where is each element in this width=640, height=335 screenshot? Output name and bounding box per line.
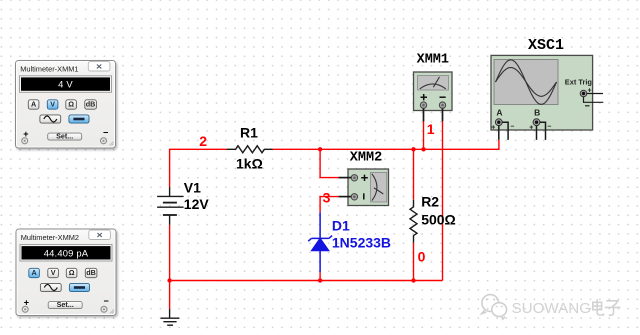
svg-text:R1: R1 <box>240 124 258 140</box>
svg-text:+: + <box>529 125 533 132</box>
svg-text:−: − <box>104 296 109 306</box>
svg-text:Ω: Ω <box>69 268 75 277</box>
svg-text:D1: D1 <box>332 218 350 234</box>
wire XMM2 plus branch <box>320 149 339 177</box>
wire node1 horizontal: R1 right to scope A <box>273 140 499 149</box>
svg-text:500Ω: 500Ω <box>421 212 456 228</box>
XMM2 + pin lead <box>339 177 352 179</box>
svg-text:3: 3 <box>323 189 331 205</box>
svg-text:12V: 12V <box>184 196 210 212</box>
svg-text:dB: dB <box>86 99 96 108</box>
svg-text:R2: R2 <box>421 194 439 210</box>
junction node1-R2 <box>411 147 415 151</box>
XMM1 - terminal pin <box>439 102 445 108</box>
svg-text:V1: V1 <box>184 179 201 195</box>
wire XMM2 minus to node3 to D1 <box>320 197 339 213</box>
XSC1 Ext Trig pin <box>580 90 587 97</box>
svg-text:−: − <box>103 127 108 137</box>
junction node2-XMM2 <box>318 147 322 151</box>
junction ground bus left <box>167 278 171 282</box>
XSC1 Ext Trig pin leads <box>584 94 604 103</box>
watermark logo <box>482 295 507 320</box>
svg-text:SUOWANG: SUOWANG <box>512 300 592 317</box>
svg-text:1N5233B: 1N5233B <box>332 235 391 251</box>
wire R2 top branch <box>413 149 415 199</box>
svg-text:XSC1: XSC1 <box>528 37 564 54</box>
junction node1-XMM1 <box>421 147 425 151</box>
junction D1 bus <box>318 278 322 282</box>
XMM2 - terminal pin <box>351 194 357 200</box>
svg-text:XMM2: XMM2 <box>350 151 382 166</box>
svg-text:Set...: Set... <box>56 132 73 141</box>
svg-text:B: B <box>534 108 540 118</box>
svg-text:0: 0 <box>418 249 426 265</box>
XMM1 + terminal pin <box>420 102 426 108</box>
battery V1 <box>157 187 184 225</box>
svg-text:Multimeter-XMM1: Multimeter-XMM1 <box>20 65 78 74</box>
svg-text:A: A <box>31 268 36 277</box>
svg-text:44.409 pA: 44.409 pA <box>44 247 89 258</box>
svg-text:−: − <box>547 124 551 131</box>
wire XMM1 minus to bus <box>442 121 444 280</box>
XMM1 - pin lead <box>442 108 444 121</box>
XMM2 - pin lead <box>339 196 352 198</box>
svg-text:XMM1: XMM1 <box>417 53 449 68</box>
wire XMM1 plus branch <box>423 121 425 149</box>
svg-text:dB: dB <box>86 268 96 277</box>
svg-text:4 V: 4 V <box>58 79 73 90</box>
wire bottom ground bus <box>170 280 443 282</box>
wire battery bottom to ground <box>169 225 171 309</box>
resistor R2 <box>410 200 417 243</box>
ground <box>161 309 180 325</box>
Multimeter-XMM1 window <box>16 61 116 149</box>
CIRCUIT WIRES <box>170 121 499 309</box>
multimeter icon XMM1 <box>414 53 453 122</box>
svg-text:+: + <box>23 129 28 139</box>
svg-text:Ext Trig: Ext Trig <box>565 77 593 86</box>
XSC1 channel A pin <box>495 119 502 126</box>
junction R2 bus <box>411 278 415 282</box>
zener diode D1 <box>308 212 332 272</box>
multimeter icon XMM2 <box>339 151 389 206</box>
svg-text:−: − <box>510 124 514 131</box>
XMM1 + pin lead <box>423 108 425 121</box>
oscilloscope icon XSC1 <box>491 37 603 140</box>
svg-text:+: + <box>491 125 495 132</box>
Multimeter-XMM2 window <box>16 229 116 316</box>
XSC1 channel A and B pin leads <box>499 122 546 140</box>
resistor R1 <box>227 146 273 153</box>
svg-text:1kΩ: 1kΩ <box>236 155 263 171</box>
svg-text:1: 1 <box>427 121 435 137</box>
wire node2 top: battery to R1 to node1 run <box>170 149 227 187</box>
XMM2 + terminal pin <box>351 175 357 181</box>
svg-text:+: + <box>24 297 29 307</box>
svg-text:V: V <box>51 268 56 277</box>
svg-text:Multimeter-XMM2: Multimeter-XMM2 <box>21 233 79 242</box>
svg-text:Set...: Set... <box>57 300 74 309</box>
svg-text:V: V <box>50 99 55 108</box>
svg-text:A: A <box>31 99 36 108</box>
wire D1 anode to bus <box>319 272 321 280</box>
XSC1 channel B pin <box>533 119 540 126</box>
svg-text:A: A <box>496 108 502 118</box>
wire R2 bottom to bus <box>413 243 415 281</box>
svg-text:2: 2 <box>199 133 207 149</box>
svg-text:Ω: Ω <box>68 99 74 108</box>
